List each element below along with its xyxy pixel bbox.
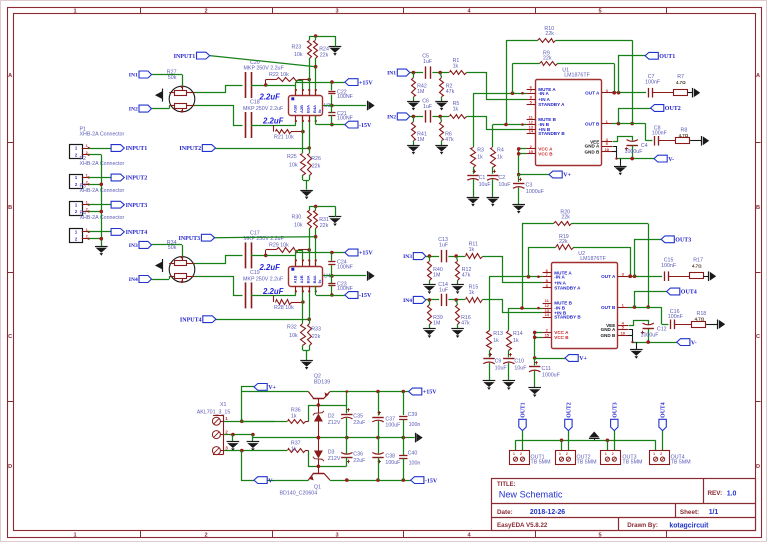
svg-text:R25: R25 [287,154,297,160]
svg-text:OUT B: OUT B [601,305,616,310]
svg-text:VCC B: VCC B [538,152,553,157]
svg-text:STANDBY B: STANDBY B [554,315,581,320]
svg-text:V+: V+ [268,385,276,391]
svg-text:R30: R30 [292,215,302,221]
svg-text:R21 10k: R21 10k [274,134,294,140]
svg-text:A1B: A1B [293,275,298,283]
svg-text:GND B: GND B [584,150,599,155]
svg-text:C: C [8,334,12,340]
svg-text:1k: 1k [497,155,503,161]
svg-text:LM1876TF: LM1876TF [580,256,606,262]
svg-text:IN2: IN2 [129,107,138,113]
svg-text:10k: 10k [289,333,298,339]
svg-text:100nF: 100nF [652,131,668,137]
svg-text:A1B: A1B [293,105,298,113]
svg-text:1k: 1k [469,247,475,253]
svg-text:A2B: A2B [299,105,304,113]
svg-text:100nF: 100nF [645,79,661,85]
svg-text:OUT A: OUT A [585,90,600,95]
svg-text:B: B [756,205,760,211]
svg-text:REV:: REV: [708,490,723,497]
svg-text:R14: R14 [513,331,523,337]
svg-text:1k: 1k [469,290,475,296]
svg-text:1.0: 1.0 [727,490,737,497]
svg-text:100uF: 100uF [385,423,401,429]
svg-text:BD139: BD139 [314,380,330,386]
svg-text:3: 3 [335,9,338,15]
svg-text:-15V: -15V [359,293,372,299]
svg-text:TB 5MM: TB 5MM [531,459,551,465]
svg-text:10k: 10k [289,163,298,169]
svg-text:1: 1 [559,452,561,456]
svg-text:IN1: IN1 [129,73,138,79]
svg-text:MKP 250V 2.2uF: MKP 250V 2.2uF [244,66,285,72]
svg-text:22k: 22k [545,31,554,37]
svg-text:OUT1: OUT1 [659,54,675,60]
svg-text:10k: 10k [294,222,303,228]
svg-text:2: 2 [204,533,207,539]
svg-text:1/1: 1/1 [709,509,719,516]
svg-text:MKP 250V 2.2uF: MKP 250V 2.2uF [243,277,284,283]
svg-text:47k: 47k [445,137,454,143]
svg-text:2: 2 [612,452,614,456]
svg-text:22uF: 22uF [353,458,366,464]
svg-text:R4: R4 [497,148,504,154]
svg-text:22k: 22k [559,239,568,245]
svg-text:New Schematic: New Schematic [499,490,563,500]
svg-text:A: A [8,73,12,79]
svg-text:2.2uF: 2.2uF [262,117,284,126]
svg-text:kotagcircuit: kotagcircuit [669,522,709,529]
svg-text:+15V: +15V [359,80,373,86]
svg-text:1k: 1k [477,155,483,161]
svg-text:STANDBY A: STANDBY A [554,286,581,291]
svg-text:X1: X1 [220,402,227,408]
svg-text:4.7Ω: 4.7Ω [692,264,702,269]
svg-text:IN1: IN1 [387,71,396,77]
svg-text:B: B [8,205,12,211]
svg-text:1k: 1k [513,338,519,344]
svg-text:14: 14 [529,129,534,134]
svg-text:C: C [756,334,760,340]
svg-text:100nF: 100nF [668,314,684,320]
svg-text:INPUT4: INPUT4 [126,230,148,236]
svg-text:R32: R32 [287,324,297,330]
svg-text:OUT3: OUT3 [612,402,618,418]
svg-text:3: 3 [225,445,228,450]
svg-text:2: 2 [660,452,662,456]
svg-text:100NF: 100NF [337,264,354,270]
svg-text:V-: V- [691,340,697,346]
svg-text:INPUT2: INPUT2 [126,176,148,182]
svg-text:LM1876TF: LM1876TF [564,73,590,79]
svg-text:C38: C38 [385,454,395,460]
svg-text:100n: 100n [409,461,421,467]
svg-text:-15V: -15V [359,123,372,129]
svg-text:47k: 47k [446,89,455,95]
svg-text:100nF: 100nF [661,263,677,269]
svg-text:1000uF: 1000uF [542,372,561,378]
svg-text:1uF: 1uF [423,104,433,110]
svg-text:R29 10k: R29 10k [269,243,289,249]
svg-text:10k: 10k [294,52,303,58]
svg-text:1uF: 1uF [439,288,449,294]
svg-text:C9: C9 [495,359,502,365]
svg-text:10uF: 10uF [514,366,527,372]
svg-text:22k: 22k [312,334,321,340]
svg-text:10uF: 10uF [498,182,511,188]
svg-text:2018-12-26: 2018-12-26 [530,509,565,516]
svg-text:2.2uF: 2.2uF [259,263,281,272]
svg-text:+15V: +15V [423,390,437,396]
svg-text:INPUT3: INPUT3 [126,203,148,209]
svg-text:15: 15 [545,333,550,338]
svg-text:V+: V+ [563,173,571,179]
svg-text:4.7Ω: 4.7Ω [679,133,689,138]
svg-text:INPUT4: INPUT4 [180,317,202,323]
svg-text:B4A: B4A [312,105,317,113]
svg-text:D: D [8,464,12,470]
svg-text:TB 5MM: TB 5MM [577,459,597,465]
svg-text:2: 2 [566,452,568,456]
svg-text:1k: 1k [453,64,459,70]
svg-text:1k: 1k [291,413,297,419]
svg-text:2.2uF: 2.2uF [262,287,284,296]
svg-text:INPUT3: INPUT3 [179,236,201,242]
svg-text:5c: 5c [318,280,322,284]
svg-text:OUT1: OUT1 [521,402,527,418]
svg-text:22k: 22k [320,53,329,59]
svg-text:22uF: 22uF [353,420,366,426]
svg-text:R33: R33 [311,326,321,332]
svg-text:4.7Ω: 4.7Ω [695,317,705,322]
svg-text:14: 14 [545,312,550,317]
svg-text:B3A: B3A [306,105,311,113]
svg-text:1: 1 [653,452,655,456]
svg-text:B4A: B4A [312,275,317,283]
svg-text:INPUT1: INPUT1 [174,54,196,60]
svg-text:-IN A: -IN A [538,91,549,96]
svg-text:2: 2 [204,9,207,15]
svg-text:10: 10 [605,147,610,152]
svg-text:1M: 1M [433,321,440,327]
svg-text:TITLE:: TITLE: [497,482,516,488]
svg-text:10uF: 10uF [479,182,492,188]
svg-text:TB 5MM: TB 5MM [622,459,642,465]
svg-text:C18: C18 [250,100,260,106]
svg-text:47k: 47k [461,321,470,327]
svg-text:5: 5 [598,533,601,539]
svg-text:C39: C39 [408,412,418,418]
svg-text:IN3: IN3 [129,243,138,249]
svg-text:1: 1 [605,452,607,456]
svg-text:TB 5MM: TB 5MM [671,459,691,465]
svg-text:C35: C35 [353,414,363,420]
svg-text:OUT A: OUT A [601,274,616,279]
svg-text:1k: 1k [493,338,499,344]
svg-text:B3A: B3A [306,275,311,283]
svg-text:+15V: +15V [359,251,373,257]
svg-text:R3: R3 [477,148,484,154]
svg-text:IN2: IN2 [387,114,396,120]
svg-text:100n: 100n [409,422,421,428]
svg-text:1M: 1M [417,89,424,95]
svg-text:OUT4: OUT4 [681,290,697,296]
svg-text:15: 15 [529,149,534,154]
svg-text:XHB-2A Connector: XHB-2A Connector [80,131,125,137]
svg-text:1k: 1k [453,107,459,113]
svg-text:-15V: -15V [425,478,438,484]
svg-text:1000uF: 1000uF [625,149,644,155]
svg-text:1: 1 [73,9,76,15]
svg-text:1k: 1k [291,446,297,452]
svg-text:10: 10 [621,331,626,336]
svg-text:C37: C37 [385,416,395,422]
svg-text:V+: V+ [579,356,587,362]
svg-text:EasyEDA V5.8.22: EasyEDA V5.8.22 [497,522,548,529]
svg-text:BD140_C20604: BD140_C20604 [280,491,318,497]
svg-text:R28 10k: R28 10k [274,305,294,311]
svg-text:C3: C3 [526,182,533,188]
svg-text:C10: C10 [514,359,524,365]
svg-text:2: 2 [520,452,522,456]
svg-text:R13: R13 [493,331,503,337]
svg-text:D: D [756,464,760,470]
svg-text:IN4: IN4 [129,277,138,283]
svg-text:100NF: 100NF [337,94,354,100]
svg-text:22k: 22k [320,223,329,229]
svg-text:D3: D3 [328,450,335,456]
svg-text:1: 1 [73,533,76,539]
svg-text:22k: 22k [312,164,321,170]
svg-text:INPUT2: INPUT2 [179,146,201,152]
svg-text:R26: R26 [311,156,321,162]
svg-text:5: 5 [598,9,601,15]
svg-text:1000uF: 1000uF [526,189,545,195]
svg-text:Date:: Date: [497,509,513,516]
svg-text:STANDBY B: STANDBY B [538,131,565,136]
svg-text:OUT2: OUT2 [567,402,573,418]
svg-text:IN4: IN4 [403,298,412,304]
svg-text:47k: 47k [462,273,471,279]
svg-text:C1: C1 [479,175,486,181]
svg-text:4.7Ω: 4.7Ω [676,80,686,85]
svg-text:Q2: Q2 [314,374,321,380]
svg-text:A: A [756,73,760,79]
svg-text:R22 10k: R22 10k [269,72,289,78]
svg-text:GND A: GND A [585,144,600,149]
svg-text:1: 1 [225,416,228,421]
svg-text:V-: V- [668,157,674,163]
svg-text:1: 1 [513,452,515,456]
svg-text:1uF: 1uF [439,243,449,249]
svg-text:1uF: 1uF [423,59,433,65]
svg-text:IN3: IN3 [403,254,412,260]
svg-text:1M: 1M [433,273,440,279]
svg-text:22k: 22k [543,56,552,62]
svg-text:OUT3: OUT3 [675,237,691,243]
svg-text:MKP 250V 2.2uF: MKP 250V 2.2uF [243,106,284,112]
svg-text:A2B: A2B [299,275,304,283]
svg-text:C36: C36 [353,452,363,458]
svg-text:2.2uF: 2.2uF [259,93,281,102]
svg-text:1000uF: 1000uF [641,332,660,338]
svg-text:100uF: 100uF [385,460,401,466]
svg-text:C2: C2 [498,175,505,181]
svg-text:Sheet:: Sheet: [680,509,699,516]
svg-text:D2: D2 [328,414,335,420]
svg-text:GND A: GND A [601,327,616,332]
svg-text:GND B: GND B [600,333,615,338]
svg-text:STANDBY A: STANDBY A [538,102,565,107]
svg-text:AKL701_3_15: AKL701_3_15 [197,409,231,415]
svg-text:50k: 50k [168,75,177,81]
svg-text:VCC B: VCC B [554,335,569,340]
svg-text:INPUT1: INPUT1 [126,146,148,152]
svg-text:R23: R23 [292,44,302,50]
svg-text:OUT4: OUT4 [661,402,667,418]
svg-text:Z12V: Z12V [328,420,341,426]
svg-text:100NF: 100NF [337,116,354,122]
svg-text:1M: 1M [417,137,424,143]
svg-text:50k: 50k [168,245,177,251]
svg-text:OUT B: OUT B [585,121,600,126]
svg-text:U4: U4 [324,273,331,279]
svg-text:3: 3 [335,533,338,539]
svg-text:C40: C40 [408,450,418,456]
svg-text:5c: 5c [318,109,322,113]
svg-text:-IN A: -IN A [554,274,565,279]
svg-text:100NF: 100NF [337,286,354,292]
svg-text:Drawn By:: Drawn By: [627,522,658,529]
svg-text:Z12V: Z12V [328,456,341,462]
svg-text:OUT2: OUT2 [665,106,681,112]
svg-text:10uF: 10uF [495,366,508,372]
svg-text:C19: C19 [250,270,260,276]
svg-text:C11: C11 [542,366,551,372]
svg-text:V-: V- [268,478,274,484]
svg-text:22k: 22k [561,215,570,221]
svg-text:2: 2 [225,429,228,434]
